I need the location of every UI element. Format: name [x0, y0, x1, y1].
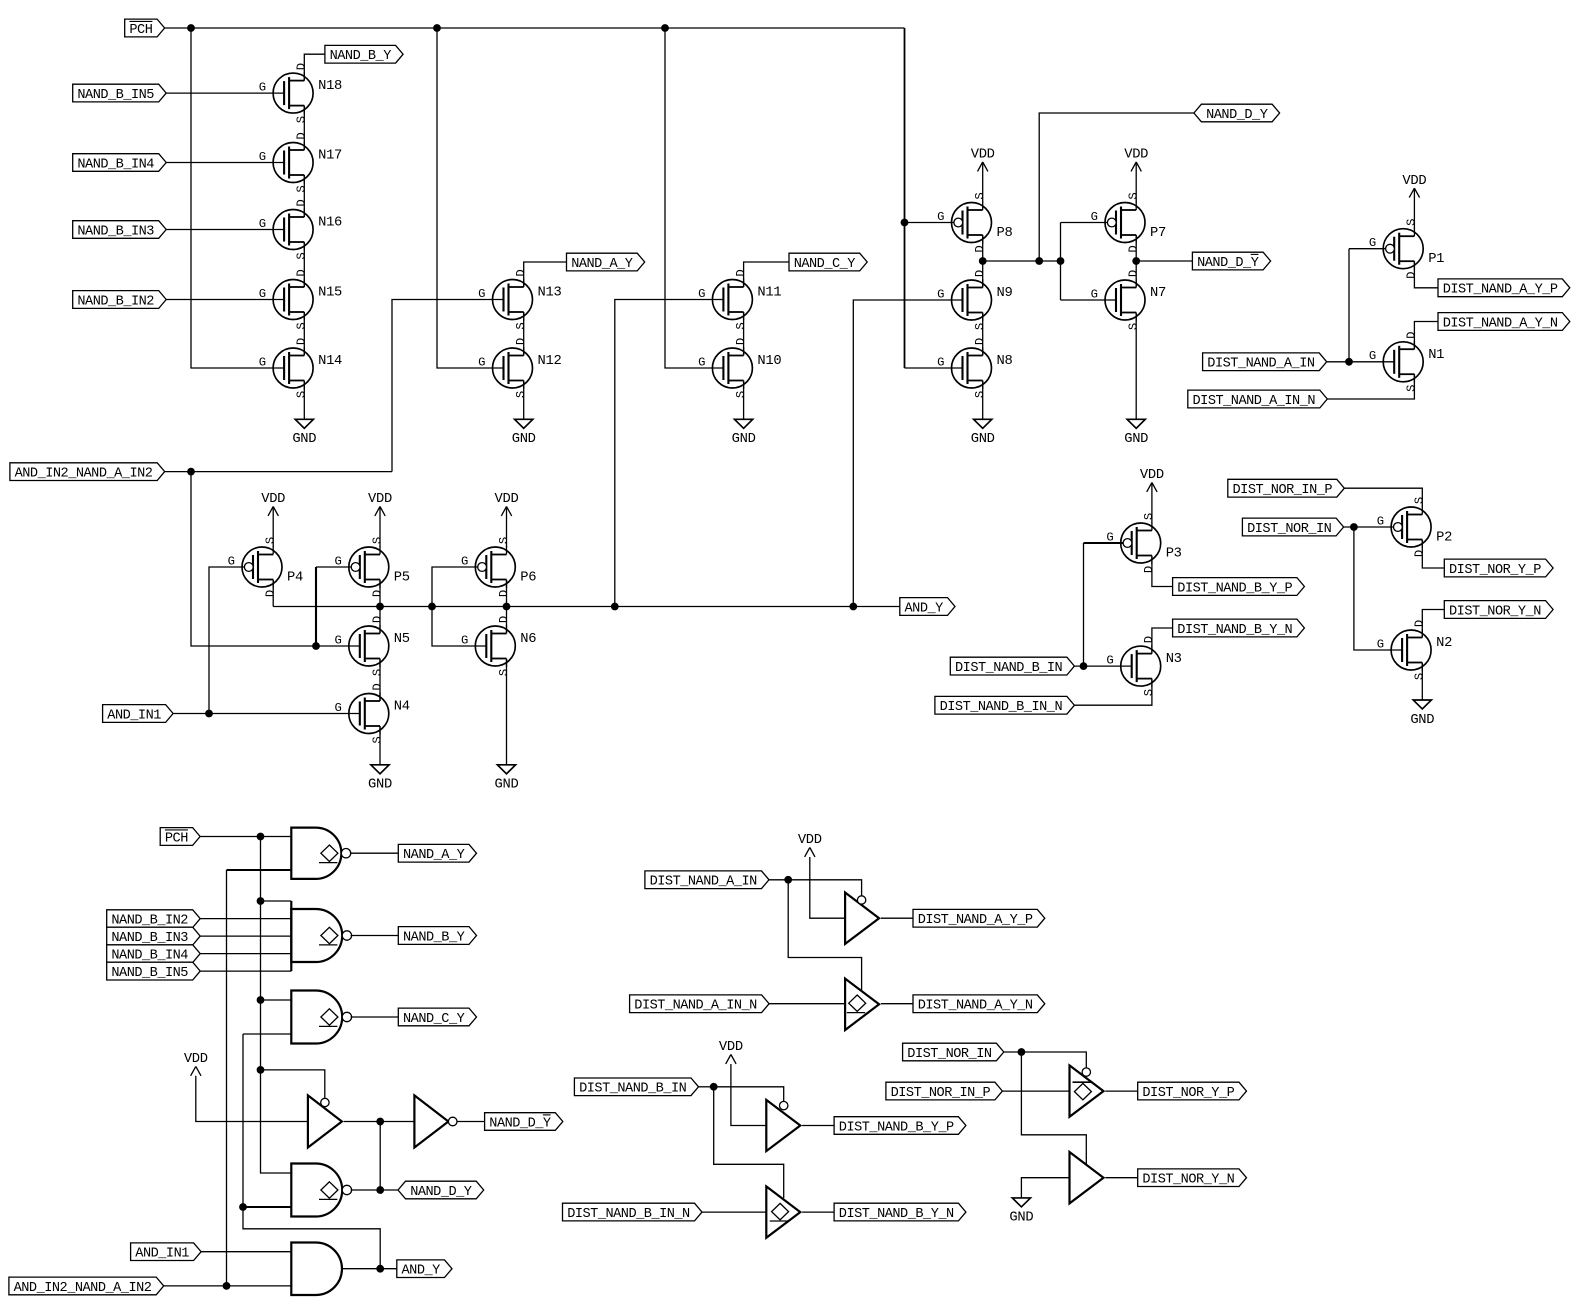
wire AND output	[342, 1268, 397, 1270]
transistor P1	[1369, 219, 1444, 279]
net label AND_IN1	[103, 705, 174, 724]
junction PCH to NAND_C	[257, 996, 265, 1004]
wire N6 drain	[506, 607, 508, 634]
wire N5 drain	[379, 607, 381, 634]
wire AND_Y riser to N9 gate	[853, 300, 962, 607]
wire VDD to A_Y_P buffer input	[810, 857, 845, 918]
svg-text:VDD: VDD	[1140, 468, 1164, 483]
svg-text:G: G	[259, 356, 266, 370]
svg-text:DIST_NAND_A_IN: DIST_NAND_A_IN	[1207, 357, 1315, 372]
svg-text:P4: P4	[287, 570, 303, 585]
wire NAND_D_Y label link	[1039, 113, 1194, 261]
wire B_Y_N output	[802, 1211, 834, 1213]
svg-text:G: G	[334, 634, 341, 648]
net label NAND_A_Y gate	[398, 844, 476, 863]
wire P1 gate riser	[1349, 248, 1385, 250]
wire NAND_D output	[351, 1189, 398, 1191]
wire N7 gate	[1061, 299, 1117, 301]
wire N1 source to DIST_NAND_A_IN_N	[1327, 374, 1414, 399]
junction P8 gate tap	[901, 219, 909, 227]
wire P8 drain to N9 drain	[982, 235, 984, 288]
transistor N1	[1369, 332, 1444, 392]
svg-text:N16: N16	[318, 216, 342, 231]
wire AND_IN2 riser to N13 gate	[392, 300, 504, 472]
wire keeper output	[344, 1121, 415, 1123]
svg-text:G: G	[698, 287, 705, 301]
wire NAND_B_IN3 input	[200, 935, 291, 937]
svg-text:DIST_NOR_IN_P: DIST_NOR_IN_P	[891, 1086, 991, 1101]
svg-text:NAND_D_Y: NAND_D_Y	[1197, 256, 1259, 271]
inverter NAND_D_Yb	[414, 1095, 457, 1147]
net label NAND_B_IN2 gate	[107, 910, 201, 929]
net label AND_IN2_NAND_A_IN2	[10, 463, 165, 482]
ground under N12	[512, 419, 536, 447]
transistor N5	[334, 616, 409, 676]
wire P8 gate tap	[905, 222, 954, 224]
wire PCH to NAND_B gate input	[261, 900, 292, 902]
svg-text:GND: GND	[512, 432, 536, 447]
wire B_Y_P output	[802, 1125, 834, 1127]
svg-text:NAND_B_Y: NAND_B_Y	[403, 930, 465, 945]
transistor P2	[1377, 497, 1452, 557]
wire DIST_NAND_A_IN to N1 gate	[1327, 361, 1395, 363]
svg-text:PCH: PCH	[165, 831, 188, 846]
wire NAND_A output	[351, 852, 399, 854]
wire AND_Y to NAND_D input	[243, 1206, 291, 1208]
svg-text:DIST_NAND_B_IN: DIST_NAND_B_IN	[955, 661, 1063, 676]
net label DIST_NOR_IN_P gate	[886, 1082, 1003, 1101]
svg-text:NAND_A_Y: NAND_A_Y	[571, 257, 633, 272]
net label DIST_NAND_B_Y_P gate	[834, 1117, 966, 1136]
svg-text:D: D	[264, 590, 278, 597]
ground under N10	[732, 419, 756, 447]
svg-text:D: D	[1142, 566, 1156, 573]
svg-text:N14: N14	[318, 354, 342, 369]
svg-text:NAND_B_IN4: NAND_B_IN4	[111, 949, 188, 964]
wire inverter output	[457, 1121, 485, 1123]
wire N5 source to N4 drain	[379, 659, 381, 702]
svg-text:G: G	[478, 356, 485, 370]
wire N2 source to ground	[1421, 663, 1423, 701]
power VDD above P4	[261, 492, 285, 547]
wire N11 source to N10 drain	[743, 312, 745, 356]
wire N14 source to ground	[303, 381, 305, 420]
wire P5 gate tie vertical	[315, 567, 317, 646]
wire AND_IN1 riser to P4 gate	[209, 567, 244, 714]
svg-text:D: D	[295, 63, 309, 70]
net label NAND_C_Y gate	[398, 1008, 476, 1027]
wire P2 drain out	[1422, 540, 1444, 569]
svg-text:NAND_B_IN2: NAND_B_IN2	[111, 914, 188, 929]
svg-text:P1: P1	[1428, 252, 1444, 267]
transistor N9	[937, 270, 1012, 330]
svg-text:S: S	[295, 391, 309, 398]
wire N8 source to ground	[982, 381, 984, 420]
NAND gate NAND_B_Y	[291, 901, 351, 971]
svg-text:VDD: VDD	[798, 833, 822, 848]
wire N11 drain to NAND_C_Y	[744, 262, 789, 287]
wire P3/N3 gate vertical	[1083, 543, 1085, 666]
junction P5/N5 drains	[376, 603, 384, 611]
net label DIST_NOR_IN right	[1242, 518, 1343, 537]
wire AND_IN2 horizontal	[165, 471, 392, 473]
AND gate AND_Y	[291, 1243, 342, 1296]
net label DIST_NOR_Y_P gate	[1138, 1082, 1247, 1101]
wire AND_IN1 input	[201, 1251, 291, 1253]
wire VDD to B_Y_P buffer input	[731, 1064, 766, 1126]
svg-text:DIST_NOR_Y_P: DIST_NOR_Y_P	[1449, 563, 1541, 578]
svg-text:D: D	[1127, 270, 1141, 277]
net label NAND_B_IN5	[73, 84, 167, 103]
svg-text:DIST_NAND_A_Y_N: DIST_NAND_A_Y_N	[1443, 316, 1558, 331]
open-source buffer DIST_NOR_Y_P	[1070, 1065, 1104, 1116]
wire N2 drain out	[1422, 610, 1444, 638]
junction DIST_NOR_IN drop	[1350, 523, 1358, 531]
open-drain buffer DIST_NAND_B_Y_N	[766, 1186, 800, 1237]
svg-text:DIST_NAND_B_Y_N: DIST_NAND_B_Y_N	[839, 1207, 954, 1222]
svg-text:N10: N10	[757, 354, 781, 369]
svg-text:G: G	[259, 217, 266, 231]
junction NAND_D_Y tap	[1035, 257, 1043, 265]
wire keeper output to NAND_D_Yb label	[1136, 260, 1192, 262]
svg-text:DIST_NAND_A_Y_P: DIST_NAND_A_Y_P	[918, 913, 1033, 928]
net label NAND_B_IN4	[73, 154, 167, 173]
svg-text:S: S	[973, 323, 987, 330]
wire P3 drain out	[1152, 556, 1173, 587]
svg-text:S: S	[295, 116, 309, 123]
net label PCH gate section	[160, 828, 200, 847]
tristate buffer DIST_NAND_A_Y_P	[845, 893, 879, 944]
junction AND_Y to N11 riser	[611, 603, 619, 611]
svg-text:VDD: VDD	[495, 492, 519, 507]
svg-text:NAND_D_Y: NAND_D_Y	[1206, 108, 1268, 123]
NAND gate NAND_A_Y	[291, 828, 350, 879]
power VDD above P7	[1124, 148, 1148, 203]
wire DIST_NOR_IN stub	[1004, 1051, 1022, 1053]
svg-text:NAND_D_Y: NAND_D_Y	[410, 1185, 472, 1200]
wire PCH drop to N10 gate	[665, 28, 723, 368]
wire A_IN_N input	[769, 1003, 845, 1005]
svg-text:D: D	[1413, 550, 1427, 557]
svg-text:S: S	[1127, 192, 1141, 199]
wire enable to NOR_Y_N buffer	[1021, 1052, 1086, 1164]
wire AND_IN2 input	[164, 1285, 292, 1287]
wire DIST_NAND_B_IN to N3 gate	[1074, 665, 1131, 667]
net label DIST_NAND_B_IN_N right	[935, 696, 1075, 715]
wire NAND_B_IN2 to N15 gate	[166, 299, 284, 301]
wire node NAND_D_Y horizontal	[983, 260, 1061, 262]
svg-text:VDD: VDD	[971, 148, 995, 163]
power VDD above P3	[1140, 468, 1164, 523]
svg-text:N13: N13	[538, 286, 562, 301]
svg-text:D: D	[1127, 245, 1141, 252]
wire NAND_B_IN2 input	[200, 918, 291, 920]
svg-text:VDD: VDD	[184, 1052, 208, 1067]
net label DIST_NAND_A_IN_N right	[1188, 390, 1328, 409]
net label DIST_NAND_A_IN_N gate	[630, 995, 770, 1014]
transistor N6	[461, 616, 536, 676]
net label DIST_NAND_B_IN_N gate	[563, 1203, 703, 1222]
svg-text:G: G	[228, 555, 235, 569]
net label NAND_B_IN4 gate	[107, 945, 201, 964]
power VDD above P8	[971, 148, 995, 203]
svg-text:N11: N11	[757, 286, 781, 301]
svg-text:AND_Y: AND_Y	[905, 601, 944, 616]
svg-text:P8: P8	[997, 226, 1013, 241]
net label DIST_NAND_B_Y_P right	[1173, 578, 1305, 597]
svg-text:DIST_NOR_IN_P: DIST_NOR_IN_P	[1233, 483, 1333, 498]
svg-text:NAND_C_Y: NAND_C_Y	[794, 257, 856, 272]
net label AND_IN2 gate	[9, 1277, 164, 1296]
svg-text:D: D	[295, 132, 309, 139]
svg-text:DIST_NAND_B_Y_P: DIST_NAND_B_Y_P	[1177, 581, 1292, 596]
junction keeper gate tap	[1057, 257, 1065, 265]
wire N13 source to N12 drain	[523, 312, 525, 356]
svg-text:N4: N4	[394, 700, 410, 715]
wire N7 source to ground	[1135, 313, 1137, 420]
svg-text:G: G	[1377, 638, 1384, 652]
svg-text:N2: N2	[1436, 636, 1452, 651]
wire B_IN_N input	[702, 1211, 766, 1213]
svg-text:DIST_NOR_Y_N: DIST_NOR_Y_N	[1449, 604, 1541, 619]
wire P6 gate link	[432, 567, 478, 607]
wire N1 drain out	[1414, 322, 1438, 350]
svg-text:DIST_NAND_B_IN_N: DIST_NAND_B_IN_N	[940, 700, 1063, 715]
wire N8 gate stub	[905, 367, 963, 369]
net label DIST_NOR_Y_P right	[1444, 559, 1553, 578]
wire NAND_C output	[351, 1016, 399, 1018]
wire NAND_B_IN5 to N18 gate	[166, 92, 284, 94]
transistor P6	[461, 537, 536, 597]
svg-text:NAND_B_IN3: NAND_B_IN3	[77, 224, 154, 239]
svg-text:G: G	[698, 356, 705, 370]
svg-text:P5: P5	[394, 570, 410, 585]
wire N3 source to DIST_NAND_B_IN_N	[1074, 679, 1152, 706]
net label NAND_D_Yb gate	[485, 1113, 563, 1132]
svg-text:S: S	[497, 537, 511, 544]
svg-text:DIST_NAND_A_IN: DIST_NAND_A_IN	[650, 875, 758, 890]
junction PCH rail / N10 gate drop	[661, 24, 669, 32]
net label PCH	[125, 19, 165, 38]
wire NAND/AND internal node	[273, 606, 900, 608]
svg-text:VDD: VDD	[1402, 174, 1426, 189]
svg-text:N17: N17	[318, 149, 342, 164]
net label NAND_D_Y gate	[398, 1181, 484, 1200]
svg-text:G: G	[937, 356, 944, 370]
wire DIST_NAND_A_IN stub	[769, 879, 788, 881]
svg-text:AND_IN1: AND_IN1	[107, 708, 161, 723]
ground DIST_NOR section	[1009, 1198, 1033, 1226]
svg-text:S: S	[497, 669, 511, 676]
junction PCH bus top	[257, 833, 265, 841]
svg-text:S: S	[1142, 689, 1156, 696]
svg-text:N12: N12	[538, 354, 562, 369]
wire N13 drain to NAND_A_Y	[524, 262, 567, 287]
svg-text:D: D	[295, 199, 309, 206]
transistor P4	[228, 537, 303, 597]
net label DIST_NAND_B_IN gate	[574, 1078, 698, 1097]
svg-text:S: S	[973, 192, 987, 199]
wire PCH to NAND_C input	[261, 999, 292, 1001]
transistor P7	[1091, 192, 1166, 252]
svg-text:N3: N3	[1166, 652, 1182, 667]
svg-text:D: D	[973, 338, 987, 345]
svg-text:N8: N8	[997, 354, 1013, 369]
NAND gate NAND_D_Y	[291, 1164, 351, 1217]
junction P6/N6 drains	[503, 603, 511, 611]
power VDD above P1	[1402, 174, 1426, 229]
wire N6 gate link	[432, 607, 486, 647]
transistor P8	[937, 192, 1012, 252]
wire enable to A_Y_P buffer	[788, 880, 861, 896]
junction PCH to NAND_B	[257, 897, 265, 905]
svg-text:NAND_B_IN4: NAND_B_IN4	[77, 157, 154, 172]
svg-text:N6: N6	[520, 632, 536, 647]
wire PCH bus vertical	[261, 837, 292, 1174]
svg-text:DIST_NOR_IN: DIST_NOR_IN	[907, 1047, 992, 1062]
svg-text:DIST_NAND_A_Y_N: DIST_NAND_A_Y_N	[918, 999, 1033, 1014]
svg-text:S: S	[1413, 497, 1427, 504]
junction AND output	[376, 1265, 384, 1273]
wire enable to NOR_Y_P buffer	[1021, 1052, 1086, 1068]
wire DIST_NAND_B_IN stub	[699, 1086, 714, 1088]
wire AND_Y feedback vertical	[243, 1033, 291, 1035]
wire PCH drop to N12 gate	[437, 28, 504, 368]
power VDD gate section	[184, 1052, 208, 1076]
ground under N7	[1124, 419, 1148, 447]
junction P5/N5 gate tie	[312, 642, 320, 650]
wire N3 drain out	[1152, 628, 1173, 654]
svg-text:G: G	[334, 701, 341, 715]
svg-text:GND: GND	[732, 432, 756, 447]
svg-text:DIST_NAND_B_IN: DIST_NAND_B_IN	[579, 1082, 687, 1097]
svg-text:DIST_NOR_Y_P: DIST_NOR_Y_P	[1142, 1086, 1234, 1101]
transistor N18	[259, 63, 342, 123]
svg-text:G: G	[937, 288, 944, 302]
net label DIST_NAND_A_IN gate	[645, 871, 769, 890]
junction DIST_NAND_A_IN	[784, 876, 792, 884]
wire AND_IN2 bus vertical	[226, 870, 228, 1286]
svg-text:S: S	[370, 537, 384, 544]
wire AND_IN2 drop to N5 gate row	[191, 472, 360, 646]
wire GND to NOR_Y_N input	[1021, 1178, 1069, 1198]
wire enable to A_Y_N buffer	[788, 880, 861, 991]
svg-text:AND_Y: AND_Y	[402, 1264, 441, 1279]
svg-text:D: D	[1142, 636, 1156, 643]
svg-text:G: G	[1091, 210, 1098, 224]
svg-text:S: S	[295, 185, 309, 192]
svg-text:NAND_B_IN3: NAND_B_IN3	[111, 931, 188, 946]
transistor N8	[937, 338, 1012, 398]
transistor N4	[334, 683, 409, 743]
net label NAND_D_Y top	[1194, 104, 1280, 123]
net label DIST_NAND_B_Y_N right	[1173, 619, 1305, 638]
wire NAND_B_IN4 to N17 gate	[166, 162, 284, 164]
net label DIST_NOR_Y_N right	[1444, 601, 1553, 620]
transistor N13	[478, 269, 561, 329]
svg-text:GND: GND	[495, 778, 519, 793]
transistor N15	[259, 269, 342, 329]
power VDD DIST_NAND_B	[719, 1040, 743, 1064]
transistor N7	[1091, 270, 1166, 330]
svg-text:S: S	[1142, 513, 1156, 520]
svg-text:NAND_C_Y: NAND_C_Y	[403, 1012, 465, 1027]
svg-text:DIST_NOR_Y_N: DIST_NOR_Y_N	[1142, 1173, 1234, 1188]
junction N1/P1 gate	[1345, 358, 1353, 366]
wire N18 source to N17 drain	[303, 106, 305, 150]
svg-text:AND_IN2_NAND_A_IN2: AND_IN2_NAND_A_IN2	[14, 1281, 152, 1296]
svg-text:GND: GND	[1410, 713, 1434, 728]
net label DIST_NAND_A_Y_N right	[1438, 313, 1570, 332]
svg-text:D: D	[1405, 332, 1419, 339]
svg-text:VDD: VDD	[719, 1040, 743, 1055]
svg-text:AND_IN2_NAND_A_IN2: AND_IN2_NAND_A_IN2	[15, 467, 153, 482]
wire NAND_B_IN4 input	[200, 953, 291, 955]
wire AND_Y riser to N11 gate	[615, 300, 724, 607]
transistor N3	[1106, 636, 1181, 696]
wire A_Y_P output	[881, 917, 913, 919]
net label NAND_B_IN2	[73, 291, 167, 310]
svg-text:D: D	[1405, 272, 1419, 279]
svg-text:G: G	[1091, 288, 1098, 302]
net label DIST_NOR_IN_P right	[1228, 479, 1345, 498]
wire P7 gate	[1061, 222, 1108, 224]
ground under N6	[495, 765, 519, 793]
svg-text:DIST_NAND_A_Y_P: DIST_NAND_A_Y_P	[1443, 283, 1558, 298]
svg-text:D: D	[295, 269, 309, 276]
svg-text:D: D	[514, 338, 528, 345]
net label NAND_B_IN5 gate	[107, 962, 201, 981]
wire N12 source to ground	[523, 381, 525, 420]
net label DIST_NAND_A_Y_P gate	[913, 909, 1045, 928]
wire N6 source to ground	[506, 659, 508, 765]
transistor N14	[259, 338, 342, 398]
net label DIST_NAND_A_Y_N gate	[913, 995, 1045, 1014]
svg-text:S: S	[514, 391, 528, 398]
svg-text:S: S	[1413, 673, 1427, 680]
wire P5 gate stub	[316, 566, 351, 568]
svg-text:G: G	[334, 555, 341, 569]
svg-text:G: G	[1377, 515, 1384, 529]
junction AND_IN1 riser	[205, 710, 213, 718]
svg-text:DIST_NAND_A_IN_N: DIST_NAND_A_IN_N	[634, 999, 757, 1014]
tristate buffer DIST_NAND_B_Y_P	[766, 1100, 800, 1151]
wire N18 drain to NAND_B_Y	[304, 54, 325, 80]
transistor P3	[1106, 513, 1181, 573]
ground under N4	[368, 765, 392, 793]
svg-text:NAND_D_Y: NAND_D_Y	[489, 1116, 551, 1131]
svg-text:D: D	[973, 245, 987, 252]
svg-text:NAND_B_Y: NAND_B_Y	[330, 49, 392, 64]
transistor N2	[1377, 620, 1452, 680]
wire P5 drain	[379, 580, 381, 607]
wire P7 drain to N7 drain	[1135, 235, 1137, 288]
wire keeper gates riser	[1060, 223, 1062, 301]
svg-text:D: D	[734, 269, 748, 276]
wire DIST_NOR_IN_P to P2 source	[1344, 488, 1422, 507]
net label AND_IN1 gate	[131, 1243, 202, 1262]
junction P8/N9 drains	[979, 257, 987, 265]
wire enable to B_Y_P buffer	[714, 1087, 784, 1102]
svg-text:D: D	[370, 590, 384, 597]
wire PCH rail	[165, 27, 905, 29]
svg-text:D: D	[370, 616, 384, 623]
transistor N10	[698, 338, 781, 398]
wire DIST_NOR_IN drop to N2 gate	[1354, 527, 1402, 650]
buffer DIST_NOR_Y_N	[1070, 1152, 1104, 1203]
wire P6 drain	[506, 580, 508, 607]
wire NAND_B_IN5 input	[200, 970, 291, 972]
